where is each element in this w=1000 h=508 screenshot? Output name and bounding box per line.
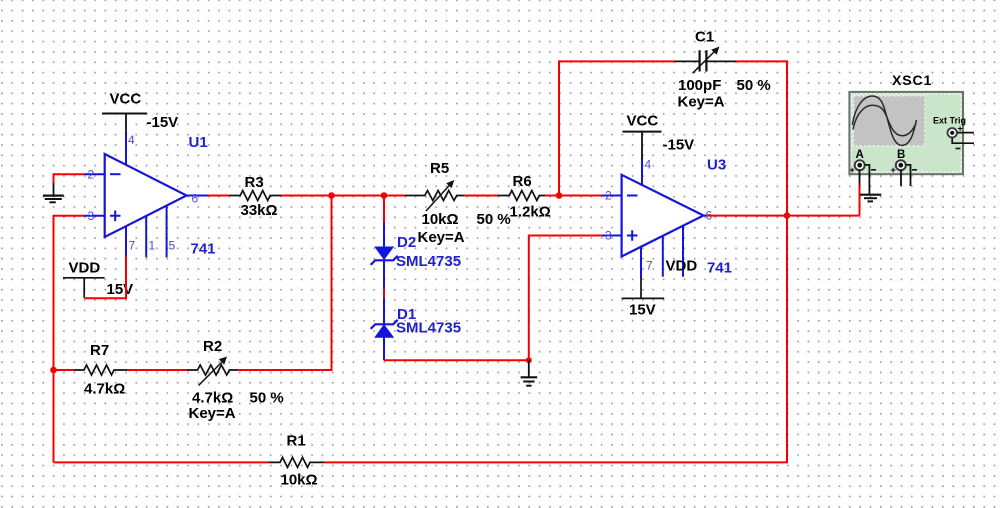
op-amp U3 (602, 158, 708, 278)
wire R6 to U3 inverting input (545, 195, 602, 197)
wire scope A minus hook to ground (865, 165, 870, 195)
oscilloscope channel B label (897, 149, 905, 161)
ground (left, at U1 pin 2) (43, 183, 64, 202)
D1 label (397, 306, 416, 323)
oscilloscope channel B connector (891, 160, 918, 175)
zener diode D1 (371, 297, 398, 360)
svg-text:XSC1: XSC1 (892, 72, 932, 88)
op-amp U1 (84, 133, 208, 257)
svg-text:2: 2 (88, 168, 95, 182)
wire diode branch down from node (383, 196, 385, 224)
wire C1 top loop (559, 61, 787, 215)
svg-text:15V: 15V (629, 302, 656, 319)
R2 label (203, 338, 222, 355)
R3 value 33k (241, 202, 278, 219)
potentiometer R5 (405, 180, 465, 211)
wire VDD to U1 pin 7 (84, 257, 126, 299)
wire scope B minus stub (906, 165, 911, 186)
svg-text:741: 741 (707, 260, 732, 277)
VCC value -15V (U3) (663, 137, 695, 154)
svg-text:+: + (891, 165, 896, 175)
R2 percent 50 % (250, 389, 284, 406)
R1 label (287, 433, 306, 450)
U3 reference label (707, 157, 726, 174)
wire segment between D2 and D1 (383, 289, 385, 297)
svg-text:6: 6 (192, 192, 199, 206)
wire Ext Trig plus stub (957, 132, 974, 134)
zener diode D2 (371, 223, 398, 290)
svg-text:1: 1 (149, 239, 156, 253)
node junction at C1 left branch (556, 192, 563, 199)
wire R3 to R5 (281, 195, 405, 197)
wire bottom feedback loop R1 (54, 216, 788, 463)
svg-text:R3: R3 (245, 174, 264, 191)
variable capacitor C1 (674, 47, 736, 74)
R5 percent 50 % (477, 211, 511, 228)
wire scope A input stub (859, 170, 861, 185)
svg-text:R7: R7 (90, 342, 109, 359)
svg-text:VDD: VDD (666, 258, 698, 275)
U3 pin number 2 (605, 189, 612, 203)
svg-text:R1: R1 (287, 433, 306, 450)
svg-text:R5: R5 (430, 160, 449, 177)
U3 pin number 6 (706, 209, 713, 223)
svg-text:50 %: 50 % (477, 211, 511, 228)
svg-text:4.7kΩ: 4.7kΩ (192, 389, 233, 406)
svg-text:741: 741 (191, 241, 216, 258)
oscilloscope XSC1 body (849, 92, 963, 174)
wire D1 to ground (384, 359, 529, 361)
wire U1 non-inverting input down left side to bottom loop (54, 216, 85, 463)
wire scope B plus stub (900, 170, 902, 187)
svg-text:R2: R2 (203, 338, 222, 355)
oscilloscope Ext Trig label (933, 116, 966, 126)
C1 percent 50 % (737, 77, 771, 94)
oscilloscope Ext Trig connector (948, 124, 963, 149)
svg-text:10kΩ: 10kΩ (281, 471, 318, 488)
wire U3 output to scope (708, 184, 860, 215)
svg-text:U1: U1 (189, 134, 208, 151)
svg-text:R6: R6 (513, 173, 532, 190)
node junction at R7 (50, 367, 57, 374)
wire Ext Trig minus stub (952, 138, 974, 144)
node junction at ground (526, 357, 532, 363)
svg-text:U3: U3 (707, 157, 726, 174)
svg-text:33kΩ: 33kΩ (241, 202, 278, 219)
svg-text:100pF: 100pF (678, 77, 721, 94)
R6 value 1.2k (510, 204, 551, 221)
wire R7 left lead (54, 369, 75, 371)
svg-text:Key=A: Key=A (189, 405, 236, 422)
svg-text:SML4735: SML4735 (396, 253, 461, 270)
svg-text:SML4735: SML4735 (396, 320, 461, 337)
VCC value -15V (U1) (147, 114, 179, 131)
wire U1 output to R3 (208, 195, 230, 197)
svg-text:C1: C1 (695, 29, 714, 46)
R5 value 10k (422, 211, 459, 228)
R2 Key=A (189, 405, 236, 422)
svg-text:7: 7 (646, 259, 653, 273)
C1 label (695, 29, 714, 46)
wire R2 up to R3 node (238, 196, 331, 371)
wire U3 non-inverting input to ground node (529, 236, 602, 361)
oscilloscope channel A label (856, 149, 864, 161)
C1 value 100pF (678, 77, 721, 94)
D2 part SML4735 (396, 253, 461, 270)
svg-text:VCC: VCC (110, 91, 142, 108)
svg-text:3: 3 (88, 209, 95, 223)
resistor R1 (269, 457, 324, 467)
svg-text:-15V: -15V (663, 137, 695, 154)
svg-text:15V: 15V (107, 281, 134, 298)
svg-text:-15V: -15V (147, 114, 179, 131)
svg-text:4: 4 (128, 133, 135, 147)
svg-text:4: 4 (645, 158, 652, 172)
wire R5 to R6 (465, 195, 498, 197)
oscilloscope screen with waveform (852, 96, 925, 146)
U1 pin number 6 (192, 192, 199, 206)
D2 label (397, 234, 416, 251)
wire R7 to R2 (128, 369, 187, 371)
resistor R3 (230, 191, 282, 201)
svg-text:D2: D2 (397, 234, 416, 251)
svg-text:VDD: VDD (69, 260, 101, 277)
R6 label (513, 173, 532, 190)
R2 value 4.7k (192, 389, 233, 406)
svg-text:2: 2 (605, 189, 612, 203)
VCC power symbol (U1) (102, 91, 147, 135)
svg-text:1.2kΩ: 1.2kΩ (510, 204, 551, 221)
oscilloscope channel A connector (850, 160, 877, 175)
U3 pin number 3 (605, 229, 612, 243)
ground (scope) (861, 195, 882, 202)
oscilloscope XSC1 label (892, 72, 932, 88)
resistor R7 (74, 365, 128, 375)
U1 pin number 2 (88, 168, 95, 182)
VCC power symbol (U3) (623, 113, 662, 160)
U3 VDD pin label (666, 258, 698, 275)
R5 label (430, 160, 449, 177)
R7 label (90, 342, 109, 359)
VDD value 15V (U1) (107, 281, 134, 298)
U3 pin number 7 (646, 259, 653, 273)
node junction at R2 feedback (328, 192, 335, 199)
R3 label (245, 174, 264, 191)
svg-text:Key=A: Key=A (418, 229, 465, 246)
node junction at diode branch (381, 192, 388, 199)
U3 part number 741 (707, 260, 732, 277)
U1 pin number 3 (88, 209, 95, 223)
wire U1 inverting input to ground (54, 174, 85, 184)
svg-text:50 %: 50 % (250, 389, 284, 406)
svg-text:7: 7 (129, 239, 136, 253)
svg-text:+: + (850, 165, 855, 175)
svg-text:3: 3 (605, 229, 612, 243)
U3 pin number 4 (645, 158, 652, 172)
15V power symbol (U3 pin 7) (622, 277, 665, 319)
ground (center, below U3 input) (521, 360, 538, 385)
U1 pin number 4 (128, 133, 135, 147)
svg-text:10kΩ: 10kΩ (422, 211, 459, 228)
node junction at U3 output (784, 212, 791, 219)
U1 pin number 5 (169, 239, 176, 253)
svg-text:VCC: VCC (627, 113, 659, 130)
resistor R6 (498, 191, 545, 201)
potentiometer R2 (187, 357, 238, 386)
C1 Key=A (678, 94, 725, 111)
U1 pin number 7 (129, 239, 136, 253)
U1 reference label (189, 134, 208, 151)
VDD power symbol (U1) (63, 260, 105, 298)
svg-text:5: 5 (169, 239, 176, 253)
svg-text:Key=A: Key=A (678, 94, 725, 111)
D1 part SML4735 (396, 320, 461, 337)
U1 part number 741 (191, 241, 216, 258)
R1 value 10k (281, 471, 318, 488)
svg-text:50 %: 50 % (737, 77, 771, 94)
R7 value 4.7k (84, 381, 125, 398)
R5 Key=A (418, 229, 465, 246)
U1 pin number 1 (149, 239, 156, 253)
svg-text:4.7kΩ: 4.7kΩ (84, 381, 125, 398)
